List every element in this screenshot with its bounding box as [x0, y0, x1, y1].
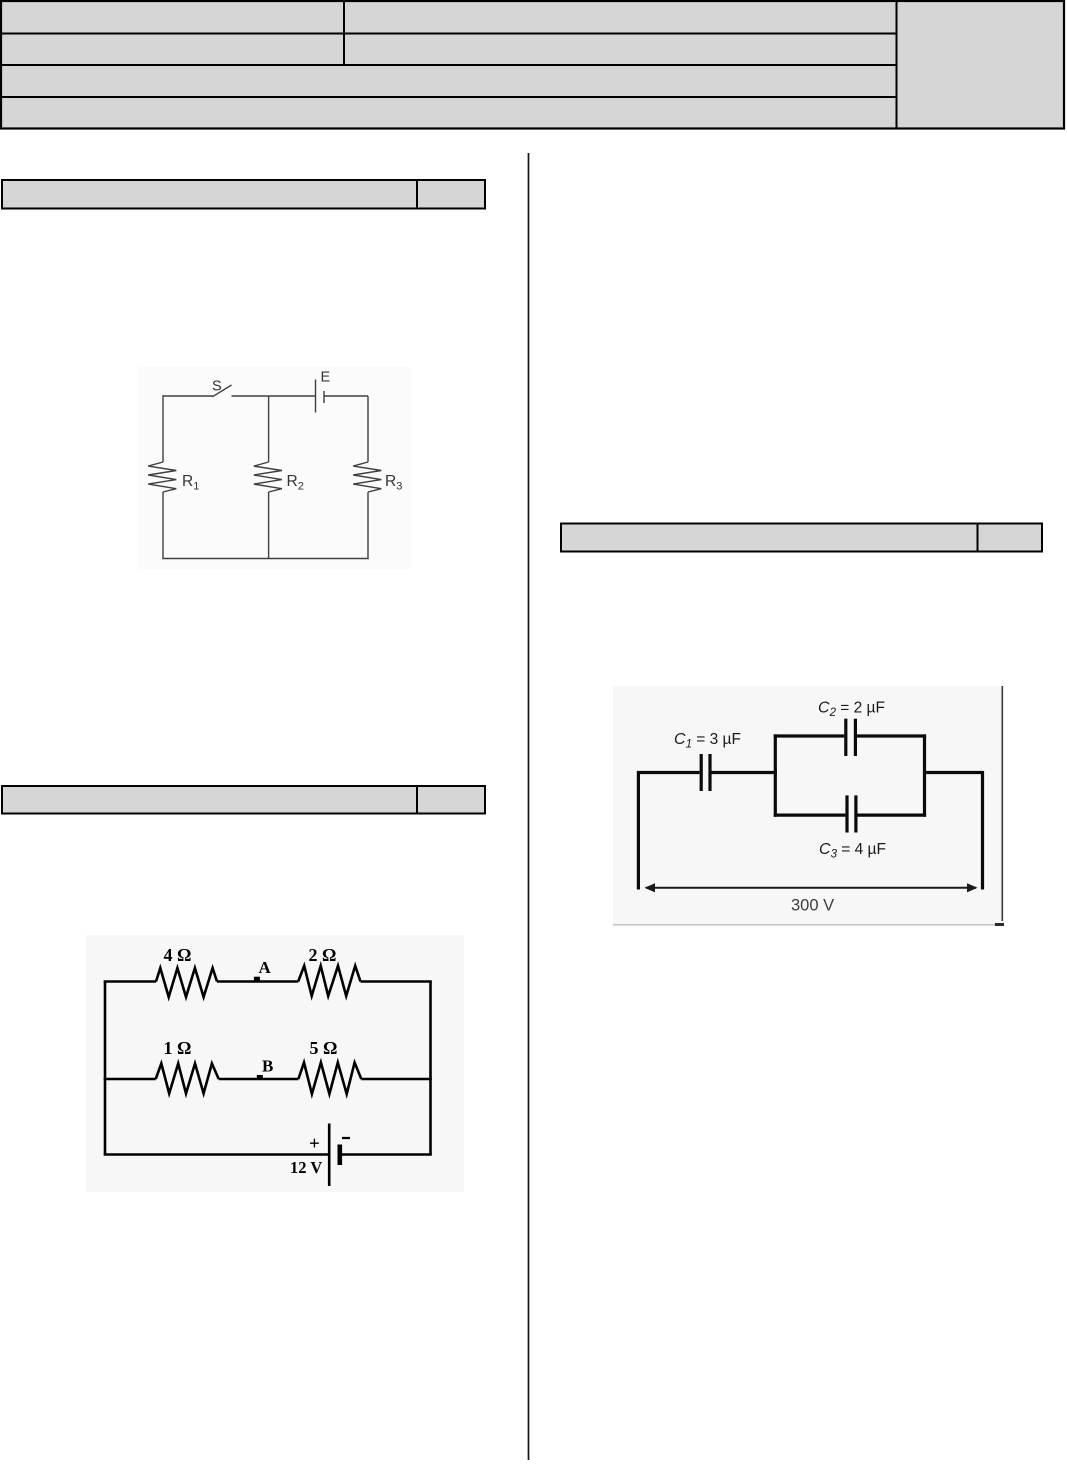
svg-text:2 Ω: 2 Ω [309, 945, 337, 965]
box top branch left [774, 734, 845, 737]
wire top middle segment [232, 395, 316, 397]
wire middle-left segment [104, 1078, 156, 1081]
wire left vertical [637, 771, 640, 890]
wire main middle segment [712, 771, 777, 774]
circuit 2 image background [86, 935, 464, 1192]
svg-text:5 Ω: 5 Ω [310, 1038, 338, 1058]
node A dot [254, 977, 260, 982]
svg-text:1 Ω: 1 Ω [164, 1038, 192, 1058]
wire right vertical [429, 982, 432, 1155]
image frame bottom border [613, 924, 1003, 926]
wire top-left segment [104, 980, 156, 983]
svg-text:C1 = 3 µF: C1 = 3 µF [674, 731, 741, 751]
wire main left segment [637, 771, 700, 774]
section bar 2 (left lower) [2, 786, 485, 814]
wire left vertical [104, 982, 107, 1155]
svg-text:+: + [309, 1134, 320, 1155]
wire middle branch upper [268, 396, 270, 462]
wire middle branch lower [268, 492, 270, 559]
section bar 3 divider [977, 524, 979, 552]
svg-text:12 V: 12 V [290, 1158, 322, 1177]
wire left branch upper [162, 395, 164, 462]
capacitor C1 right plate [708, 754, 711, 791]
battery E short plate [323, 391, 325, 403]
wire bottom-left segment [104, 1153, 330, 1156]
box bottom branch left [774, 813, 846, 816]
header table row line 2 [1, 64, 897, 66]
box top branch right [857, 734, 926, 737]
switch S blade [212, 385, 231, 397]
parallel box left vertical [774, 734, 777, 816]
wire middle-right segment [361, 1078, 432, 1081]
capacitor C1 left plate [700, 754, 703, 791]
node B dot [257, 1075, 263, 1080]
battery E long plate [315, 380, 317, 413]
battery 12V short thick plate [338, 1145, 343, 1166]
capacitor C3 right plate [854, 795, 857, 832]
wire right vertical [981, 771, 984, 890]
wire right branch lower [367, 492, 369, 559]
svg-text:300 V: 300 V [791, 897, 834, 915]
wire left branch lower [162, 492, 164, 559]
resistor R2 [254, 462, 282, 492]
wire top right segment [324, 395, 368, 397]
wire bottom [162, 558, 368, 560]
image frame corner tick [995, 923, 1004, 926]
header table row line 3 [1, 96, 897, 98]
wire bottom-right segment [342, 1153, 432, 1156]
svg-text:C2 = 2 µF: C2 = 2 µF [818, 700, 885, 720]
wire main right segment [925, 771, 983, 774]
header table right cell divider [896, 1, 898, 129]
capacitor C2 right plate [854, 719, 857, 756]
parallel box right vertical [923, 734, 926, 816]
section bar 2 divider [416, 786, 418, 814]
svg-text:C3 = 4 µF: C3 = 4 µF [819, 841, 886, 861]
resistor 4 ohm [156, 968, 217, 997]
wire top-right segment [361, 980, 432, 983]
svg-text:B: B [262, 1057, 273, 1076]
resistor 1 ohm [156, 1064, 219, 1094]
svg-text:S: S [212, 379, 222, 395]
header table column divider rows 1-2 [343, 1, 345, 65]
svg-text:A: A [259, 958, 272, 977]
300V arrowhead left [645, 883, 656, 892]
wire middle segment (node B) [219, 1078, 299, 1081]
label minus [342, 1137, 350, 1139]
circuit 3 image background [613, 686, 1003, 926]
box bottom branch right [858, 813, 927, 816]
section bar 1 divider [416, 180, 418, 209]
wire right branch upper [367, 396, 369, 462]
300V arrow line [646, 887, 976, 889]
image frame right border [1001, 686, 1003, 921]
column separator rule [528, 153, 530, 1460]
header table fill [1, 1, 1064, 129]
resistor R3 [353, 462, 381, 492]
resistor R1 [148, 462, 176, 492]
resistor 2 ohm [298, 966, 360, 996]
battery 12V long plate [328, 1124, 331, 1187]
section bar 3 (right column) [561, 524, 1042, 552]
svg-text:E: E [321, 370, 331, 386]
svg-text:4 Ω: 4 Ω [164, 945, 192, 965]
300V arrowhead right [967, 883, 978, 892]
capacitor C2 left plate [844, 719, 847, 756]
section bar 1 (left top) [2, 180, 485, 209]
circuit 1 image background [138, 367, 411, 569]
header table row line 1 [1, 33, 897, 35]
resistor 5 ohm [298, 1063, 361, 1095]
wire top left segment [163, 395, 213, 397]
capacitor C3 left plate [845, 795, 848, 832]
wire top-middle segment (node A) [217, 980, 298, 983]
